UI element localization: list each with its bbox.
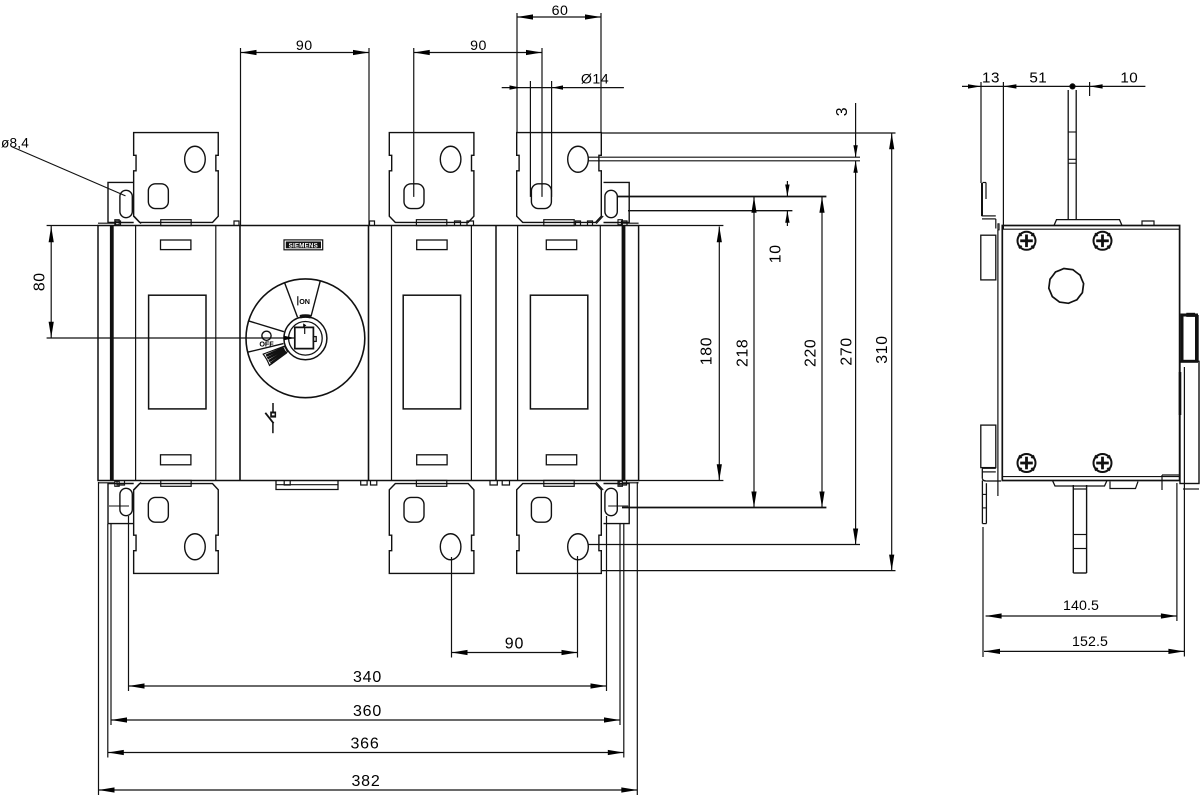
- svg-text:220: 220: [803, 339, 820, 367]
- svg-text:218: 218: [735, 339, 752, 367]
- svg-text:180: 180: [699, 337, 716, 365]
- svg-text:382: 382: [351, 773, 380, 790]
- svg-text:13: 13: [982, 70, 1000, 87]
- svg-text:10: 10: [768, 244, 785, 263]
- svg-text:366: 366: [350, 736, 379, 753]
- svg-text:140.5: 140.5: [1063, 598, 1099, 614]
- svg-text:310: 310: [874, 335, 891, 363]
- svg-text:340: 340: [353, 669, 382, 686]
- svg-text:90: 90: [470, 38, 487, 54]
- svg-text:ON: ON: [299, 297, 310, 306]
- svg-text:60: 60: [552, 3, 569, 19]
- svg-text:51: 51: [1029, 70, 1047, 87]
- svg-text:SIEMENS: SIEMENS: [289, 243, 318, 250]
- svg-text:Ø14: Ø14: [581, 72, 609, 88]
- svg-text:90: 90: [505, 636, 524, 653]
- svg-text:90: 90: [296, 38, 313, 54]
- svg-text:152.5: 152.5: [1072, 634, 1108, 650]
- svg-text:ø8,4: ø8,4: [1, 136, 29, 151]
- svg-text:270: 270: [838, 337, 855, 365]
- svg-text:10: 10: [1120, 70, 1138, 87]
- svg-text:OFF: OFF: [259, 340, 274, 349]
- svg-text:80: 80: [32, 272, 49, 291]
- svg-text:360: 360: [353, 703, 382, 720]
- svg-text:3: 3: [834, 107, 851, 117]
